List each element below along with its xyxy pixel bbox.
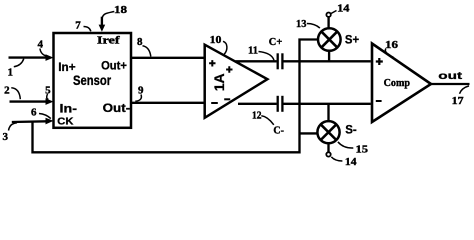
svg-text:14: 14	[337, 3, 350, 15]
svg-text:7: 7	[75, 20, 81, 32]
svg-text:8: 8	[137, 36, 143, 48]
svg-text:Out+: Out+	[101, 59, 127, 73]
svg-text:out: out	[438, 71, 463, 82]
svg-text:15: 15	[356, 143, 369, 155]
svg-text:9: 9	[138, 85, 144, 97]
svg-text:In-: In-	[60, 101, 78, 115]
svg-text:1A: 1A	[211, 73, 227, 91]
svg-text:1: 1	[8, 66, 14, 78]
svg-text:CK: CK	[57, 116, 74, 127]
svg-text:S+: S+	[345, 32, 359, 46]
svg-text:4: 4	[38, 38, 44, 50]
svg-text:17: 17	[452, 95, 464, 107]
svg-text:2: 2	[4, 84, 10, 96]
svg-text:10: 10	[210, 34, 222, 46]
svg-text:13: 13	[296, 18, 307, 30]
svg-text:18: 18	[114, 4, 128, 16]
svg-text:Out-: Out-	[103, 101, 131, 115]
svg-text:Sensor: Sensor	[73, 73, 112, 88]
svg-text:Comp: Comp	[384, 78, 410, 89]
svg-text:C+: C+	[269, 37, 283, 48]
svg-text:14: 14	[345, 156, 357, 168]
svg-text:5: 5	[45, 85, 51, 97]
svg-text:12: 12	[252, 110, 262, 122]
svg-text:3: 3	[3, 131, 9, 143]
svg-text:6: 6	[31, 107, 37, 119]
svg-text:In+: In+	[58, 60, 75, 74]
svg-text:C-: C-	[273, 126, 284, 137]
svg-text:11: 11	[248, 45, 258, 57]
svg-text:16: 16	[385, 39, 399, 51]
svg-text:Iref: Iref	[97, 36, 120, 47]
svg-text:S-: S-	[345, 122, 357, 136]
